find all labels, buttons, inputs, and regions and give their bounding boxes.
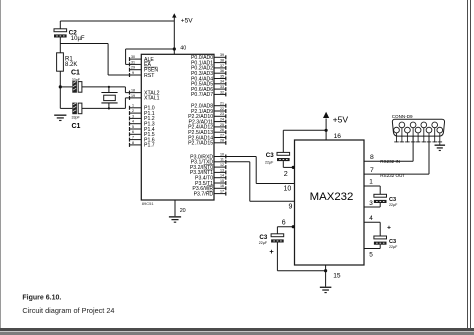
svg-text:22µF: 22µF [259,241,268,245]
svg-text:16: 16 [334,133,342,140]
svg-text:7: 7 [132,136,134,140]
svg-text:3: 3 [369,200,373,207]
svg-text:6: 6 [132,130,134,134]
svg-text:9: 9 [132,71,134,75]
svg-text:7: 7 [370,167,374,174]
svg-text:1: 1 [369,179,373,186]
svg-text:89C51: 89C51 [142,201,155,206]
svg-text:30: 30 [131,55,135,59]
svg-text:6: 6 [282,220,286,227]
svg-text:3: 3 [132,114,134,118]
svg-text:+5V: +5V [333,115,349,125]
svg-text:13: 13 [220,168,224,172]
svg-text:22µF: 22µF [265,160,274,164]
svg-text:15: 15 [333,273,341,280]
svg-text:36: 36 [220,69,224,73]
svg-text:31: 31 [131,60,135,64]
svg-text:34: 34 [220,80,224,84]
svg-text:32: 32 [220,90,224,94]
svg-text:C1: C1 [72,123,81,130]
svg-text:C3: C3 [389,239,396,245]
svg-text:10: 10 [220,152,224,156]
svg-text:5: 5 [369,252,373,259]
svg-text:C1: C1 [71,70,80,77]
svg-text:19: 19 [131,94,135,98]
svg-text:C3: C3 [266,152,274,159]
svg-text:27: 27 [220,133,224,137]
svg-text:P0.7/AD7: P0.7/AD7 [191,92,213,98]
svg-text:8: 8 [132,141,134,145]
svg-text:21: 21 [220,102,224,106]
svg-text:15: 15 [220,179,224,183]
svg-text:39: 39 [220,53,224,57]
svg-text:33: 33 [220,85,224,89]
svg-text:+5V: +5V [181,17,193,24]
svg-text:CONN-D9: CONN-D9 [392,114,413,119]
svg-text:37: 37 [220,64,224,68]
svg-text:9: 9 [289,204,293,211]
svg-text:12: 12 [220,163,224,167]
svg-text:26: 26 [220,128,224,132]
svg-text:11: 11 [220,158,224,162]
svg-text:RS232 IN: RS232 IN [380,159,400,164]
svg-text:Figure 6.10.: Figure 6.10. [22,294,61,301]
svg-text:+: + [387,225,391,232]
svg-text:38: 38 [220,59,224,63]
svg-text:Circuit diagram of Project 24: Circuit diagram of Project 24 [22,306,114,315]
svg-text:25: 25 [220,123,224,127]
svg-text:+: + [269,247,274,256]
svg-text:16: 16 [220,184,224,188]
svg-text:4: 4 [132,120,134,124]
svg-text:XTAL1: XTAL1 [144,96,160,102]
svg-text:8.2K: 8.2K [65,62,77,68]
svg-text:14: 14 [220,174,224,178]
svg-text:10: 10 [284,186,292,193]
svg-text:33pF: 33pF [72,78,81,82]
svg-text:8: 8 [370,154,374,161]
svg-text:C3: C3 [389,197,396,203]
svg-text:20: 20 [180,208,186,214]
svg-text:22µF: 22µF [389,203,398,207]
svg-text:MAX232: MAX232 [310,191,354,203]
svg-text:2: 2 [132,109,134,113]
svg-text:10µF: 10µF [71,36,85,42]
svg-text:35: 35 [220,74,224,78]
svg-text:1: 1 [132,104,134,108]
svg-text:C3: C3 [259,234,267,241]
svg-text:22: 22 [220,107,224,111]
svg-text:29: 29 [131,66,135,70]
svg-text:RST: RST [144,73,155,79]
svg-text:P1.7: P1.7 [144,143,155,149]
svg-text:23: 23 [220,112,224,116]
svg-text:4: 4 [369,215,373,222]
svg-text:22µF: 22µF [389,245,398,249]
svg-text:40: 40 [180,46,186,52]
svg-text:33pF: 33pF [72,116,81,120]
svg-text:P3.7/RD: P3.7/RD [194,191,214,197]
svg-text:5: 5 [132,125,134,129]
svg-text:P2.7/AD15: P2.7/AD15 [188,141,213,147]
svg-text:24: 24 [220,118,224,122]
svg-text:17: 17 [220,190,224,194]
svg-text:18: 18 [131,89,135,93]
svg-text:28: 28 [220,139,224,143]
svg-text:2: 2 [284,169,288,178]
svg-text:RS232 OUT: RS232 OUT [380,173,405,178]
